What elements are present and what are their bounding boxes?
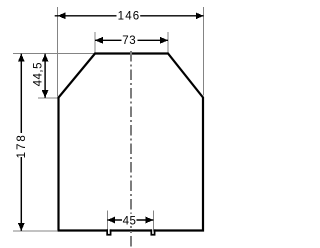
dimension 178: bottom arrow <box>18 223 25 231</box>
dimension 73: left arrow <box>95 37 103 44</box>
dimension 44,5: top arrow <box>42 54 49 62</box>
dimension 45: right arrow <box>146 217 154 224</box>
svg-text:45: 45 <box>123 215 137 227</box>
extension line: right of 73 dim (x=168) <box>167 32 169 53</box>
extension line: left of 146 dim (x=57.7) <box>57 7 59 97</box>
centerline (vertical dash-dot axis) <box>130 51 132 247</box>
svg-text:178: 178 <box>16 133 28 158</box>
dimension 146: line <box>55 15 117 17</box>
dimension 45: line <box>107 219 122 221</box>
svg-text:44,5: 44,5 <box>33 62 45 86</box>
profile outline (thick: bottom-left around top to bottom-right) <box>59 54 204 231</box>
profile bottom edge segment between slots <box>110 229 152 231</box>
extension line: left of 73 dim (x=95) <box>94 32 96 53</box>
dimension 146: right arrow <box>196 12 204 19</box>
extension line: bottom level y=231 for 178 dim <box>13 230 57 232</box>
dimension 73: line <box>95 39 122 41</box>
dimension 44,5: line <box>44 54 46 98</box>
left bottom slot lug <box>107 229 110 234</box>
extension line: chamfer bottom level y=97.8 for 44.5 dim <box>38 97 58 99</box>
dimension 73: right arrow <box>160 37 168 44</box>
dimension 146: left arrow <box>58 12 66 19</box>
dimension 45: left arrow <box>107 217 115 224</box>
dimension 178: top arrow <box>18 54 25 62</box>
svg-text:73: 73 <box>122 35 136 47</box>
svg-text:146: 146 <box>118 11 141 23</box>
dimension 45: text background mask <box>123 214 136 226</box>
right bottom slot lug <box>151 229 154 234</box>
dimension 44,5: bottom arrow <box>42 90 49 98</box>
dimension 178: line <box>20 54 22 133</box>
extension line: left of 45 dim (x=106.8) <box>106 211 108 232</box>
extension line: right of 45 dim (x=153) <box>152 211 154 232</box>
extension line: top shoulder level y=53.7 for 178/44.5 dims <box>13 53 95 55</box>
extension line: right of 146 dim (x=203.6) <box>203 7 205 96</box>
